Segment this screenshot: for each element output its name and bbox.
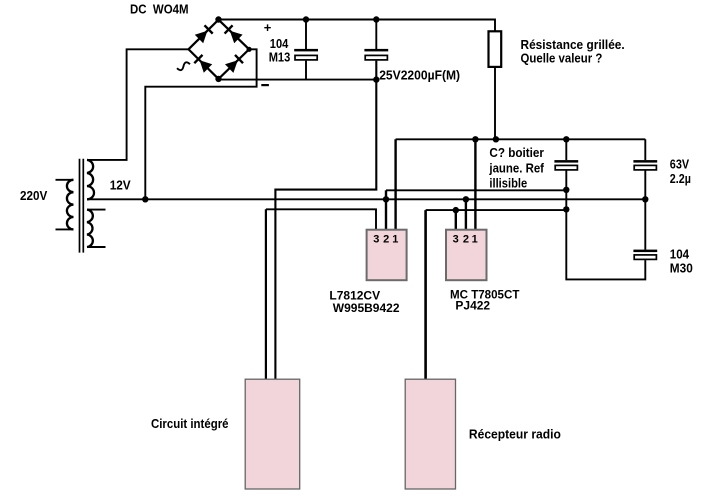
wire MC7805 pin1 — [474, 139, 476, 229]
svg-text:Quelle valeur ?: Quelle valeur ? — [521, 51, 603, 66]
wire minus rail — [219, 79, 377, 81]
svg-text:63V: 63V — [670, 156, 690, 171]
node C3 top junction — [563, 136, 569, 142]
diode lower-right — [225, 55, 243, 73]
resistor R1 grillee — [489, 31, 502, 67]
capacitor C3 boitier jaune — [554, 160, 578, 170]
diode upper-left — [195, 25, 213, 43]
svg-text:2: 2 — [383, 233, 389, 245]
node cap2 top — [373, 16, 379, 22]
transformer TR1 primary winding 220V — [67, 180, 74, 230]
svg-text:12V: 12V — [110, 178, 131, 193]
node cap2 bottom — [373, 76, 379, 82]
node 12V left — [142, 196, 148, 202]
wire secondary2 stub bottom — [87, 246, 106, 248]
wire 12V long rail — [87, 198, 645, 200]
node bridge + top — [215, 16, 221, 22]
capacitor C5 104 M30 — [633, 250, 657, 260]
svg-text:Circuit intégré: Circuit intégré — [151, 416, 229, 431]
wire circuit integre lead 1 — [265, 209, 267, 379]
node L7812 pin2 junction — [383, 196, 389, 202]
wire y210 right recepteur to C? — [426, 209, 567, 211]
svg-text:1: 1 — [392, 233, 398, 245]
diode lower-left — [194, 55, 212, 73]
bridge rectifier D1 diamond — [189, 20, 250, 79]
svg-text:DC WO4M: DC WO4M — [130, 2, 189, 17]
svg-text:M30: M30 — [670, 260, 693, 275]
wire MC7805 pin2 — [465, 199, 467, 229]
node C3 y190 junction — [563, 187, 569, 193]
wire L7812 pin1 — [394, 139, 396, 229]
svg-text:3: 3 — [453, 233, 459, 245]
transformer TR1 secondary winding lower — [87, 210, 93, 247]
svg-text:W995B9422: W995B9422 — [333, 301, 400, 315]
node 7805 pin3 junction — [453, 207, 459, 213]
svg-text:Récepteur radio: Récepteur radio — [469, 427, 561, 442]
wire y189 left cap2 bottom to circuit integre — [275, 61, 376, 380]
node bridge bottom — [215, 76, 221, 82]
svg-text:C? boitier: C? boitier — [489, 145, 544, 160]
wire C? cap branch — [565, 139, 567, 209]
node 63V bottom junction — [642, 196, 648, 202]
svg-text:104: 104 — [670, 246, 690, 261]
svg-text:3: 3 — [373, 233, 379, 245]
wire bridge AC left to transformer — [87, 49, 189, 160]
wire top rail + to resistor — [219, 20, 496, 32]
svg-text:2.2µ: 2.2µ — [670, 171, 691, 186]
node 7805 pin1 junction — [472, 136, 478, 142]
wire cap2 top lead — [375, 20, 377, 50]
capacitor C1 104 M13 — [294, 49, 318, 60]
transformer TR1 core — [80, 159, 84, 253]
diode upper-right — [225, 25, 243, 43]
circuit integre box — [245, 379, 300, 489]
wire 63V cap branch — [566, 139, 645, 279]
svg-text:2: 2 — [463, 233, 469, 245]
svg-text:illisible: illisible — [489, 176, 527, 191]
recepteur radio box — [405, 379, 455, 489]
node resistor junction — [493, 136, 499, 142]
label minus — [261, 84, 269, 86]
regulator U2 MC T7805CT body — [446, 230, 487, 281]
wire cap1 leads — [305, 20, 307, 80]
wire primary lead top — [56, 179, 74, 181]
regulator U1 L7812CV body — [367, 230, 407, 281]
wire secondary2 stub top — [87, 209, 106, 211]
svg-text:PJ422: PJ422 — [455, 299, 490, 313]
node bridge right vertex — [247, 47, 252, 52]
transformer TR1 secondary winding upper 12V — [87, 160, 94, 199]
wire resistor bottom lead — [494, 67, 496, 139]
wire bridge AC right to 12V rail — [145, 49, 256, 199]
wire recepteur radio lead — [424, 210, 427, 379]
capacitor C4 63V 2.2u — [633, 160, 657, 170]
node 7805 pin2 junction — [463, 196, 469, 202]
node C3 y209 junction — [563, 206, 569, 212]
AC sine squiggle — [177, 62, 190, 70]
svg-text:+: + — [264, 20, 272, 35]
svg-text:1: 1 — [472, 233, 478, 245]
wire y190 L7812 pin2 to C? cap — [386, 189, 566, 191]
wire primary lead bottom — [56, 228, 74, 230]
wire y209 left to L7812 pin3 — [266, 209, 376, 229]
svg-text:M13: M13 — [269, 49, 291, 64]
wire L7812 pin2 — [385, 190, 387, 229]
node cap1 top — [303, 16, 309, 22]
wire MC7805 pin3 — [455, 210, 457, 230]
svg-text:jaune. Ref: jaune. Ref — [489, 161, 545, 176]
wire rail A y139 — [396, 138, 646, 140]
svg-text:220V: 220V — [20, 188, 48, 203]
svg-text:25V2200µF(M): 25V2200µF(M) — [379, 67, 460, 82]
capacitor C2 2200uF — [364, 49, 388, 60]
